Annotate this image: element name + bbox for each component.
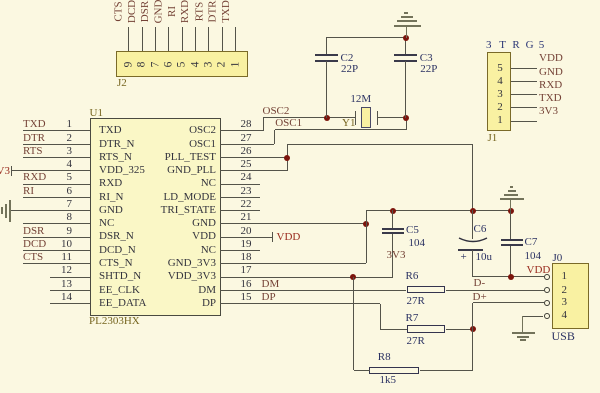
wire J1 pin 5 — [511, 68, 537, 69]
wire OSC1 riser — [274, 130, 275, 144]
wire U1 pin 10 — [23, 250, 90, 251]
J0 pin 4 number — [562, 309, 568, 322]
J2 pin label DSR (rotated) — [126, 0, 166, 25]
U1 pin 17 number — [241, 264, 252, 277]
U1 pin 2 number — [40, 132, 72, 145]
C6 designator — [474, 223, 487, 236]
wire pin22 stub — [220, 210, 260, 211]
capacitor C3 top lead — [405, 38, 406, 55]
U1 pin 25 number — [241, 158, 252, 171]
J2 pin label DCD (rotated) — [113, 0, 153, 25]
C6 plus sign — [461, 251, 467, 264]
wire OSC1 to crystal node — [406, 118, 407, 130]
wire pin16 DM to R6 — [220, 290, 406, 291]
C7 value 104 — [525, 250, 542, 263]
U1 pin name TRI_STATE — [130, 204, 216, 217]
junction OSC2/C2 — [324, 115, 330, 121]
capacitor C5 plates — [382, 228, 404, 230]
wire top rail — [326, 37, 406, 38]
wire rail left riser — [366, 210, 367, 263]
J0 pin 2 number — [562, 284, 568, 297]
capacitor C2 plates — [315, 54, 338, 56]
U1 pin 20 number — [241, 225, 252, 238]
U1 pin name RTS_N — [99, 151, 132, 164]
wire R8 left — [354, 370, 370, 371]
ground at J0 — [522, 316, 523, 333]
J2 pin label RXD (rotated) — [166, 0, 206, 25]
wire OSC2 riser — [263, 118, 264, 131]
wire pin25-26 tie — [287, 145, 288, 171]
U1 pin name DCD_N — [99, 244, 136, 257]
ground at pin 7 — [9, 200, 11, 222]
wire DP drop — [380, 304, 381, 330]
wire U1 pin 3 — [23, 157, 90, 158]
capacitor C2 top lead — [326, 38, 327, 55]
wire U1 pin 8 — [23, 223, 90, 224]
wire J2 pin 7 — [155, 27, 156, 51]
wire J2 pin 5 — [182, 27, 183, 51]
J1 header char R — [512, 39, 519, 52]
wire D+ riser — [472, 303, 473, 371]
R8 value 1k5 — [380, 374, 397, 387]
net label RXD — [23, 171, 46, 184]
U1 pin 14 number — [40, 291, 72, 304]
capacitor C3 bottom lead — [405, 61, 406, 118]
R7 designator — [406, 312, 419, 325]
U1 pin name RI_N — [99, 191, 123, 204]
J2 pin number 6 (rotated) — [159, 54, 179, 76]
U1 pin 19 number — [241, 238, 252, 251]
capacitor C6 flat plate — [458, 249, 483, 251]
U1 pin 26 number — [241, 145, 252, 158]
resistor R6 body — [407, 286, 445, 294]
J2 pin number 7 (rotated) — [145, 54, 165, 76]
U1 pin 15 number — [241, 291, 252, 304]
J0 label USB — [552, 330, 575, 343]
J2 pin number 5 (rotated) — [172, 54, 192, 76]
J0 designator — [553, 252, 563, 265]
J0 pin 1 circle — [544, 274, 550, 280]
wire pin21 GND — [220, 223, 366, 224]
wire J2 pin 9 — [128, 27, 129, 51]
U1 pin name VDD_325 — [99, 164, 145, 177]
U1 pin name VDD_3V3 — [130, 270, 216, 283]
U1 pin name VDD — [130, 230, 216, 243]
U1 pin name GND — [130, 217, 216, 230]
wire U1 pin 13 — [50, 290, 90, 291]
wire crystal to C3 node — [378, 117, 406, 118]
R8 designator — [378, 351, 391, 364]
C2 value 22P — [341, 63, 358, 76]
U1 pin name LD_MODE — [130, 191, 216, 204]
U1 pin 18 number — [241, 251, 252, 264]
net label VDD at J1 — [539, 52, 563, 65]
net label DP — [262, 291, 276, 304]
net label DSR — [23, 225, 44, 238]
wire OSC2 net — [263, 117, 355, 118]
wire J2 pin 4 — [195, 27, 196, 51]
U1 pin name RXD — [99, 177, 122, 190]
J2 pin label GND (rotated) — [139, 0, 179, 25]
U1 pin 7 number — [40, 198, 72, 211]
wire J1 pin 4 — [511, 81, 537, 82]
ground top — [406, 26, 407, 38]
capacitor C5 bottom lead — [392, 234, 393, 278]
wire mid rail — [366, 210, 511, 211]
net label RTS — [23, 145, 43, 158]
U1 part name PL2303HX — [89, 315, 140, 328]
net label OSC2 — [263, 105, 290, 118]
wire pin25 — [220, 170, 287, 171]
capacitor C7 plates — [501, 239, 523, 241]
U1 pin 1 number — [40, 118, 72, 131]
capacitor C2 bottom lead — [326, 61, 327, 118]
crystal Y1 body — [361, 107, 370, 129]
wire J0 pin4 to gnd — [523, 316, 543, 317]
net label DTR — [23, 132, 45, 145]
Y1 value 12M — [350, 93, 371, 106]
wire J2 pin 2 — [222, 27, 223, 51]
junction pin21 — [363, 221, 369, 227]
wire D- to J0 pin2 — [446, 290, 544, 291]
wire VDD to J0 pin1 — [473, 276, 544, 277]
U1 pin 13 number — [40, 278, 72, 291]
IC U1 PL2303HX body — [90, 118, 221, 316]
wire pin27 to OSC1 — [220, 144, 274, 145]
U1 pin name CTS_N — [99, 257, 133, 270]
U1 pin 16 number — [241, 278, 252, 291]
C2 designator — [341, 52, 354, 65]
U1 pin 8 number — [40, 211, 72, 224]
C3 designator — [420, 52, 433, 65]
wire J1 pin 1 — [511, 121, 537, 122]
junction top ground — [403, 35, 409, 41]
J1 pin 5 number — [493, 62, 507, 75]
wire pin28 to OSC2 — [220, 130, 263, 131]
wire pin23 stub — [220, 197, 260, 198]
wire 3V3 riser to R8 — [353, 277, 354, 370]
J1 header char 5 — [539, 39, 545, 52]
U1 pin name PLL_TEST — [130, 151, 216, 164]
J2 pin number 2 (rotated) — [212, 54, 232, 76]
J1 pin 2 number — [493, 101, 507, 114]
connector J1 body — [487, 52, 511, 131]
J1 pin 4 number — [493, 75, 507, 88]
U1 pin name OSC2 — [130, 124, 216, 137]
capacitor C7 top lead — [510, 210, 511, 240]
wire pin19 stub — [220, 250, 260, 251]
U1 pin name NC — [130, 177, 216, 190]
R6 value 27R — [407, 295, 425, 308]
U1 pin 27 number — [241, 132, 252, 145]
capacitor C6 top lead — [472, 210, 473, 239]
C6 value 10u — [476, 251, 493, 264]
U1 pin 11 number — [40, 251, 72, 264]
U1 pin name GND_PLL — [130, 164, 216, 177]
U1 pin name DM — [130, 284, 216, 297]
wire U1 pin 14 — [50, 303, 90, 304]
C3 value 22P — [420, 63, 437, 76]
net label GND at J1 — [539, 66, 563, 79]
capacitor C7 bottom lead — [510, 246, 511, 277]
power port 3V3 at pin 4 — [11, 166, 12, 176]
J2 pin label RI (rotated) — [153, 0, 193, 25]
net label RXD at J1 — [539, 79, 562, 92]
junction rail gnd — [508, 208, 514, 214]
wire U1 pin 7 — [10, 210, 90, 211]
J0 pin 3 circle — [544, 300, 550, 306]
wire J1 pin 3 — [511, 94, 537, 95]
net label DCD — [23, 238, 46, 251]
wire pin26 — [220, 157, 287, 158]
wire pin18 — [220, 263, 366, 264]
J0 pin 4 circle — [544, 313, 550, 319]
J2 pin number 4 (rotated) — [185, 54, 205, 76]
connector J2 body — [116, 51, 248, 77]
capacitor C6 curved plate — [458, 236, 488, 246]
J1 header char 3 — [486, 39, 492, 52]
net label D+ — [473, 291, 487, 304]
wire J2 pin 3 — [208, 27, 209, 51]
U1 pin 4 number — [40, 158, 72, 171]
resistor R7 body — [407, 325, 445, 333]
U1 pin name NC — [130, 244, 216, 257]
J0 pin 3 number — [562, 296, 568, 309]
J1 header char G — [526, 39, 534, 52]
U1 pin name GND_3V3 — [130, 257, 216, 270]
junction rail C5 — [390, 208, 396, 214]
wire J1 pin 2 — [511, 107, 537, 108]
wire PLL net across — [287, 144, 473, 145]
net label TXD — [23, 118, 46, 131]
U1 pin name OSC1 — [130, 138, 216, 151]
U1 designator — [90, 107, 103, 120]
J2 pin number 8 (rotated) — [132, 54, 152, 76]
J1 header char T — [499, 39, 506, 52]
C5 designator — [406, 224, 419, 237]
wire R7 right — [446, 329, 473, 330]
junction rail C6 — [470, 208, 476, 214]
resistor R8 body — [369, 367, 419, 375]
crystal Y1 left electrode — [355, 111, 356, 125]
U1 pin 22 number — [241, 198, 252, 211]
power port VDD at pin20 — [272, 232, 273, 242]
ground mid right — [510, 200, 511, 211]
U1 pin name DP — [130, 297, 216, 310]
wire OSC1 net — [275, 129, 406, 130]
J1 designator — [488, 132, 498, 145]
J1 pin 3 number — [493, 88, 507, 101]
net label DM — [262, 278, 280, 291]
net label D- — [474, 277, 486, 290]
J2 pin label DTR (rotated) — [193, 0, 233, 25]
J0 pin 2 circle — [544, 287, 550, 293]
U1 pin 28 number — [241, 118, 252, 131]
J0 pin 1 number — [562, 270, 568, 283]
wire U1 pin 12 — [50, 277, 90, 278]
U1 pin 3 number — [40, 145, 72, 158]
R6 designator — [406, 270, 419, 283]
wire J2 pin 1 — [235, 27, 236, 51]
connector J0 body — [552, 263, 589, 329]
U1 pin 21 number — [241, 211, 252, 224]
U1 pin name DSR_N — [99, 230, 134, 243]
J2 pin label RTS (rotated) — [180, 0, 220, 25]
J2 pin number 1 (rotated) — [226, 54, 246, 76]
capacitor C3 plates — [394, 54, 417, 56]
wire U1 pin 11 — [23, 263, 90, 264]
net label OSC1 — [275, 117, 302, 130]
U1 pin name NC — [99, 217, 114, 230]
junction C7/VDD — [508, 274, 514, 280]
J2 pin label TXD (rotated) — [206, 0, 246, 25]
U1 pin 10 number — [40, 238, 72, 251]
wire U1 pin 1 — [23, 130, 90, 131]
wire DP to R7 — [381, 329, 407, 330]
wire D+ to J0 pin3 — [473, 302, 544, 303]
net label VDD at J0 — [527, 264, 551, 277]
wire pin17 3V3 — [220, 277, 392, 278]
J1 pin 1 number — [493, 114, 507, 127]
capacitor C5 top lead — [392, 210, 393, 228]
crystal Y1 right electrode — [377, 111, 378, 125]
net label CTS — [23, 251, 43, 264]
J2 pin number 3 (rotated) — [199, 54, 219, 76]
U1 pin name EE_DATA — [99, 297, 146, 310]
C7 designator — [525, 236, 538, 249]
wire pin15 DP — [220, 303, 380, 304]
U1 pin name SHTD_N — [99, 270, 141, 283]
wire U1 pin 4 — [12, 170, 90, 171]
capacitor C6 bottom lead — [472, 250, 473, 277]
wire pin20 VDD — [220, 237, 272, 238]
wire U1 pin 9 — [23, 237, 90, 238]
junction R7/D+ — [470, 326, 476, 332]
U1 pin 12 number — [40, 264, 72, 277]
junction OSC1/C3 — [403, 115, 409, 121]
wire U1 pin 2 — [23, 144, 90, 145]
Y1 designator — [342, 117, 355, 130]
U1 pin name GND — [99, 204, 123, 217]
J2 designator — [117, 77, 127, 90]
wire J2 pin 6 — [168, 27, 169, 51]
R7 value 27R — [407, 335, 425, 348]
wire pin24 stub — [220, 184, 260, 185]
net label 3V3 — [387, 249, 406, 262]
junction pin17 — [350, 274, 356, 280]
junction pins25-26 — [284, 155, 290, 161]
wire PLL net drop — [472, 145, 473, 211]
wire U1 pin 5 — [23, 184, 90, 185]
wire J2 pin 8 — [142, 27, 143, 51]
U1 pin 9 number — [40, 225, 72, 238]
U1 pin name EE_CLK — [99, 284, 140, 297]
U1 pin name TXD — [99, 124, 122, 137]
wire U1 pin 6 — [23, 197, 90, 198]
net label TXD at J1 — [539, 92, 562, 105]
C5 value 104 — [409, 237, 426, 250]
net label RI — [23, 185, 34, 198]
U1 pin name DTR_N — [99, 138, 134, 151]
U1 pin 6 number — [40, 185, 72, 198]
U1 pin 23 number — [241, 185, 252, 198]
wire R8 right — [420, 370, 473, 371]
J2 pin label CTS (rotated) — [99, 0, 139, 25]
U1 pin 5 number — [40, 171, 72, 184]
J2 pin number 9 (rotated) — [119, 54, 139, 76]
net label 3V3 at J1 — [539, 105, 558, 118]
U1 pin 24 number — [241, 171, 252, 184]
